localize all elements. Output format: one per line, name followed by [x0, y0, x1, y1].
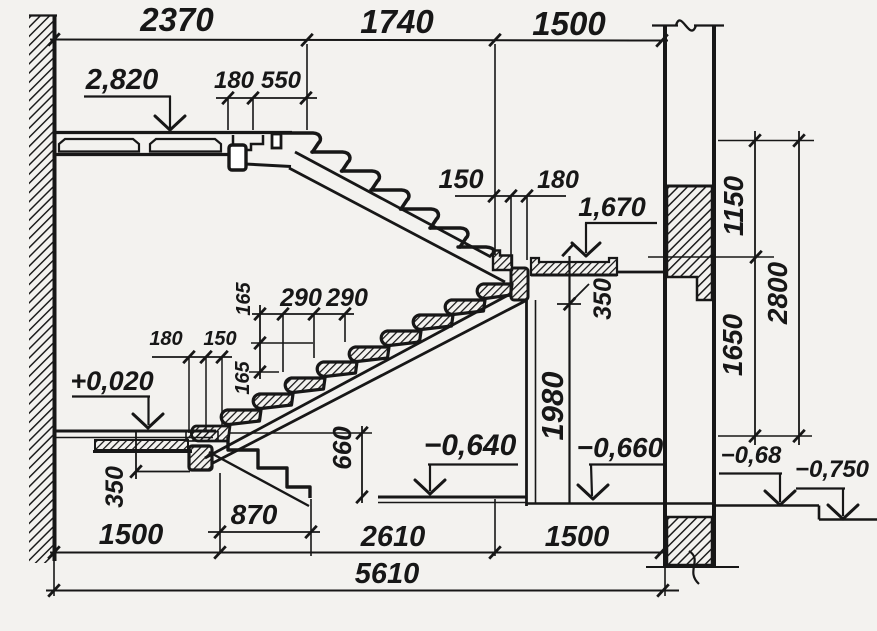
level mark -0,660 — [577, 432, 664, 499]
top floor slab bottom line — [56, 153, 232, 156]
dim 350 at landing — [557, 278, 617, 320]
dim ticks 150-180 — [488, 190, 533, 202]
upper flight stringer top line — [295, 152, 491, 257]
ext line y140 — [718, 140, 814, 142]
top landing edge piece — [233, 135, 263, 150]
level mark 2,820 — [84, 64, 185, 130]
top landing soffit connector — [245, 164, 291, 167]
svg-text:−0,640: −0,640 — [424, 429, 517, 462]
v dim line x799 — [798, 131, 800, 445]
lower flight slab bottom line — [211, 300, 527, 464]
landing post — [511, 268, 528, 300]
upper flight stringer bottom line — [289, 168, 505, 282]
svg-text:660: 660 — [327, 426, 357, 470]
outside floor -0,750 — [819, 518, 877, 521]
svg-text:550: 550 — [261, 67, 302, 94]
dim ticks 165 — [254, 308, 266, 378]
landing slab right piece — [531, 258, 617, 275]
ext line x511 — [510, 196, 512, 266]
right wall bottom break — [689, 551, 699, 584]
lower flight slab top line — [205, 293, 512, 458]
right wall right line — [712, 25, 716, 567]
level mark -0,750 — [795, 456, 870, 519]
ext line x54 low — [53, 561, 55, 596]
lower flight steps — [191, 284, 512, 441]
svg-text:1500: 1500 — [532, 5, 606, 42]
svg-text:−0,750: −0,750 — [795, 456, 870, 483]
svg-text:2370: 2370 — [139, 1, 214, 38]
level mark -0,640 — [415, 429, 518, 494]
dim line 870 — [208, 531, 320, 533]
level mark -0,68 — [719, 442, 795, 505]
dim ticks 290 — [277, 308, 351, 320]
top floor panel 1 — [59, 139, 139, 152]
top floor panel 2 — [150, 139, 221, 152]
basement flight soffit — [209, 452, 309, 506]
svg-text:1650: 1650 — [717, 313, 748, 376]
dim line 180-550 — [216, 97, 317, 99]
svg-text:1500: 1500 — [99, 519, 164, 551]
svg-text:350: 350 — [589, 278, 617, 320]
svg-text:1740: 1740 — [360, 3, 434, 40]
dim ticks 870 — [214, 526, 317, 538]
svg-text:1150: 1150 — [718, 175, 749, 236]
top floor slab top line — [56, 131, 292, 134]
top dim ticks — [48, 33, 668, 46]
ext line x527 — [526, 196, 528, 260]
landing line to wall — [617, 271, 666, 274]
dim ticks 180-550 — [222, 92, 312, 104]
support wall left inner line — [535, 300, 537, 503]
ext line x311 — [310, 499, 312, 556]
svg-text:165: 165 — [232, 360, 254, 394]
floor step down — [818, 506, 821, 520]
svg-text:870: 870 — [231, 499, 278, 530]
ground floor second line — [56, 437, 213, 439]
svg-text:1980: 1980 — [535, 372, 570, 441]
top dim line — [50, 40, 668, 41]
bottom dim row1 — [50, 552, 664, 554]
ground floor top line — [56, 430, 216, 433]
svg-text:−0,660: −0,660 — [577, 432, 664, 463]
right wall bottom cut line — [646, 566, 739, 568]
dim ticks 180-150 — [183, 351, 228, 363]
top landing small bar — [272, 134, 281, 148]
ext line x665 low — [664, 567, 666, 596]
svg-text:350: 350 — [101, 466, 129, 508]
dim line 150-180 — [455, 195, 566, 197]
row2 ticks — [48, 584, 669, 596]
ext line y257 — [648, 256, 774, 258]
ext line x253 — [252, 98, 254, 130]
ext line x220 — [219, 473, 221, 554]
basement floor -0,660 — [527, 502, 716, 505]
ext line y436 — [718, 435, 812, 437]
right wall left line — [663, 25, 667, 567]
svg-text:1500: 1500 — [545, 521, 610, 553]
svg-text:+0,020: +0,020 — [70, 366, 153, 396]
dim 660 — [230, 426, 372, 503]
svg-text:165: 165 — [233, 281, 255, 315]
dim 180 550 texts — [214, 67, 302, 94]
upper flight steps — [283, 133, 494, 255]
level mark 1,670 — [562, 192, 657, 256]
dim 350 left — [101, 431, 190, 508]
svg-text:2610: 2610 — [360, 521, 426, 553]
v dim ticks — [749, 134, 805, 442]
basement floor -0,640 — [378, 496, 527, 499]
top landing post — [229, 145, 246, 170]
ext line x228 — [227, 98, 229, 130]
ext line x314 — [313, 314, 315, 358]
ground floor junction hatch — [186, 432, 218, 442]
svg-text:5610: 5610 — [355, 558, 420, 590]
svg-text:2,820: 2,820 — [85, 64, 159, 96]
left wall hatched — [29, 15, 57, 563]
basement flight profile — [228, 437, 310, 498]
outside floor -0,68 — [714, 504, 819, 507]
dim texts 180 150 lower — [149, 328, 236, 350]
dim line 180-150 — [152, 356, 232, 358]
ext line x283 — [282, 314, 284, 372]
svg-text:150: 150 — [203, 328, 236, 350]
level mark +0,020 — [70, 366, 163, 428]
h line y372 — [249, 371, 279, 373]
ext line x495 low — [494, 499, 496, 556]
ext line x307 — [306, 44, 308, 130]
ext lines 180-150 — [189, 357, 222, 433]
landing slab left piece — [493, 251, 512, 271]
right wall lower hatched block — [667, 517, 712, 565]
row1 ticks — [48, 546, 667, 558]
v dim line x755 — [754, 131, 756, 445]
ext line x495 — [494, 44, 496, 255]
svg-text:150: 150 — [438, 164, 483, 194]
ext line x345 — [344, 314, 346, 342]
v dim line x260 — [259, 305, 261, 379]
right wall top break — [652, 20, 724, 30]
dim texts 290 290 — [279, 284, 368, 312]
dim line 290-290 — [252, 313, 354, 315]
support wall right face — [568, 256, 570, 503]
svg-text:290: 290 — [279, 284, 322, 312]
svg-text:290: 290 — [325, 284, 368, 312]
svg-text:−0,68: −0,68 — [721, 442, 782, 469]
ground floor post — [189, 446, 212, 470]
svg-text:180: 180 — [214, 67, 255, 94]
right wall upper hatched block — [665, 186, 714, 300]
svg-text:180: 180 — [537, 166, 579, 194]
svg-text:2800: 2800 — [762, 261, 793, 325]
support wall left face — [525, 300, 528, 506]
svg-text:1,670: 1,670 — [578, 192, 646, 222]
ground floor finish strip — [93, 440, 192, 452]
dim texts 150 180 — [438, 164, 578, 194]
h line y343 — [251, 342, 313, 344]
bottom dim row2 — [46, 590, 679, 592]
svg-text:180: 180 — [149, 328, 182, 350]
